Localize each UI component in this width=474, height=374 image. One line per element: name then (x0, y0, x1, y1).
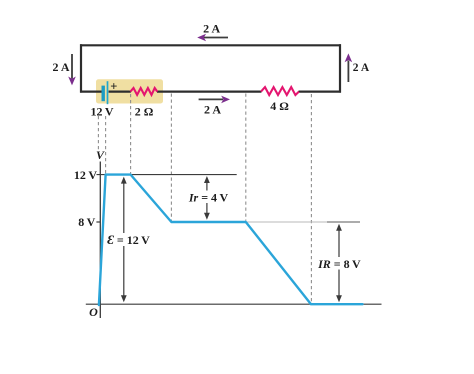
svg-text:O: O (89, 305, 98, 319)
dashed guide from right node of 4-ohm resistor (310, 94, 312, 303)
dashed guide from battery positive terminal (105, 116, 107, 173)
svg-text:V: V (96, 148, 105, 162)
resistor R1 2 ohm zigzag (130, 88, 157, 95)
wire: bottom side, left of battery (80, 90, 102, 92)
svg-text:8 V: 8 V (78, 215, 95, 229)
wire: top side of loop (80, 44, 341, 46)
svg-text:IR = 8 V: IR = 8 V (317, 257, 361, 271)
svg-text:2 A: 2 A (353, 62, 370, 74)
current arrow, left branch (down) (71, 54, 73, 79)
IR annotation arrow (8 V) (338, 226, 340, 300)
8 V reference line, dark segment (327, 221, 360, 223)
12 V reference line (97, 174, 237, 176)
battery 12 V: negative plate (101, 86, 104, 102)
svg-text:2 A: 2 A (203, 21, 220, 35)
tick at 8 V (96, 221, 100, 223)
wire: bottom side, 2-ohm resistor to 4-ohm resistor (157, 90, 261, 92)
svg-text:Ir = 4 V: Ir = 4 V (188, 190, 229, 204)
resistor R2 4 ohm zigzag (261, 87, 299, 95)
svg-text:Ɛ = 12 V: Ɛ = 12 V (107, 232, 150, 247)
svg-text:12 V: 12 V (90, 104, 113, 118)
dashed guide from left end of 2-ohm resistor (130, 94, 132, 173)
Ir label background (187, 191, 231, 204)
svg-text:12 V: 12 V (74, 168, 97, 182)
emf label background (105, 233, 153, 246)
svg-text:2 A: 2 A (204, 103, 221, 117)
current arrow, bottom branch (right) (199, 98, 223, 100)
wire: right side of loop (339, 44, 341, 92)
highlight box around battery and 2-ohm resistor (96, 79, 163, 103)
dashed guide from right end of 2-ohm resistor (170, 94, 172, 221)
wire: left side of loop (80, 44, 82, 92)
current arrow, right branch (up) (347, 61, 349, 83)
IR label background (317, 257, 363, 270)
graph x-axis (86, 303, 382, 305)
wire: bottom side, right of 4-ohm resistor (299, 90, 342, 92)
battery 12 V: positive plate (107, 81, 109, 104)
svg-text:+: + (110, 79, 117, 93)
dashed guide from battery negative terminal (97, 116, 99, 150)
emf annotation arrow (12 V) (123, 179, 125, 301)
svg-text:4 Ω: 4 Ω (270, 99, 289, 113)
8 V reference line, light segment (246, 221, 327, 223)
current arrow, top branch (left) (204, 37, 229, 39)
potential curve V(x) (99, 175, 363, 305)
Ir annotation arrow (4 V) (206, 178, 208, 218)
svg-text:2 A: 2 A (52, 60, 69, 74)
graph y-axis (99, 162, 101, 319)
wire: bottom side, battery to 2-ohm resistor (109, 90, 131, 92)
svg-text:2 Ω: 2 Ω (135, 104, 154, 118)
dashed guide from left node of 4-ohm resistor (245, 94, 247, 221)
